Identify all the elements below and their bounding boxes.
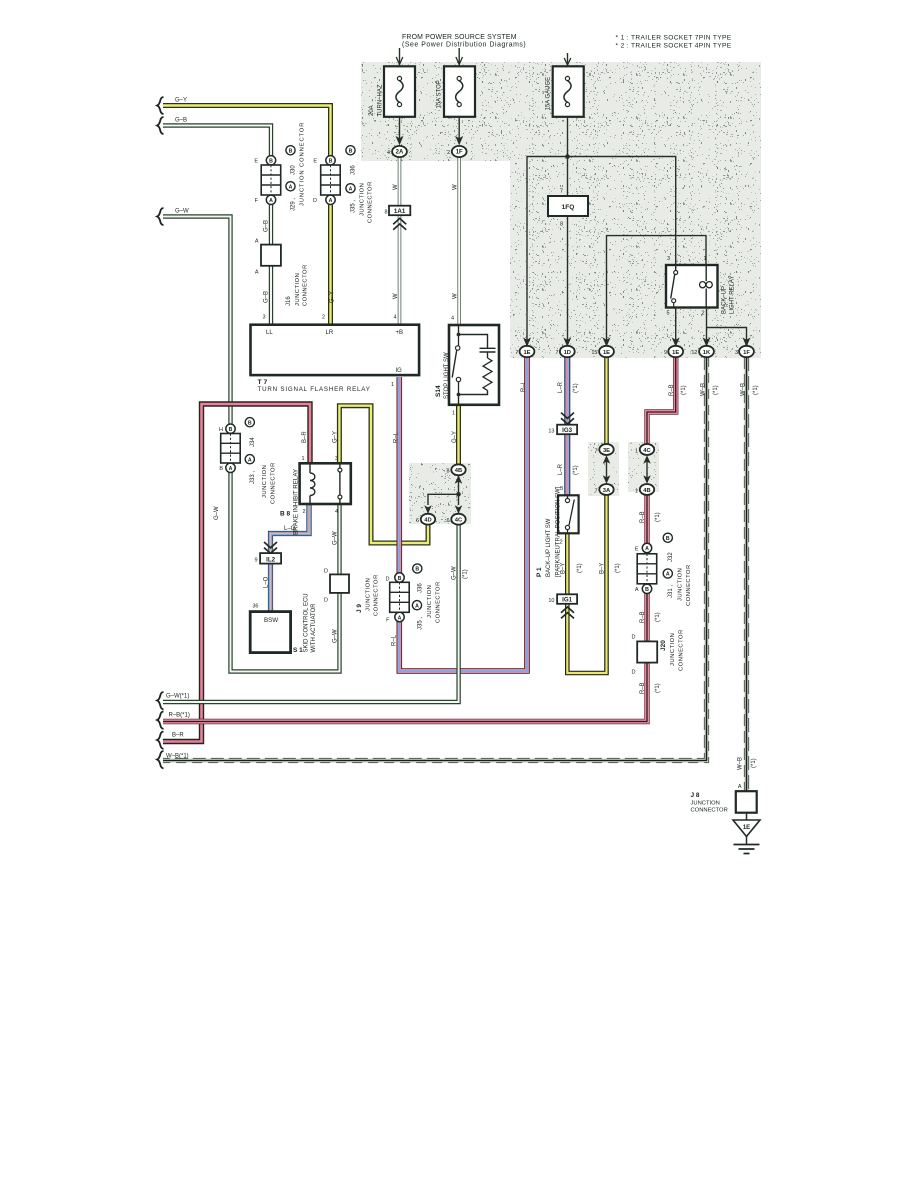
svg-text:T 7: T 7: [258, 379, 268, 386]
svg-text:A: A: [289, 184, 293, 190]
wire W-B(*1) from 1F down to J8: [744, 357, 748, 791]
svg-text:2: 2: [322, 315, 325, 321]
svg-text:G–Y: G–Y: [452, 431, 458, 443]
svg-text:A: A: [398, 616, 402, 622]
svg-text:(*1): (*1): [463, 569, 469, 579]
svg-text:D: D: [324, 569, 328, 575]
svg-text:A: A: [645, 546, 649, 552]
svg-text:R–L: R–L: [394, 431, 400, 443]
svg-text:* 1 : TRAILER SOCKET 7PIN TYPE: * 1 : TRAILER SOCKET 7PIN TYPE: [616, 35, 732, 42]
svg-text:J32: J32: [668, 552, 674, 562]
svg-text:E: E: [635, 547, 639, 553]
switch S14 stop light switch: [449, 325, 499, 405]
svg-text:SKID CONTROL ECU: SKID CONTROL ECU: [304, 593, 310, 652]
svg-text:B: B: [329, 158, 333, 164]
svg-text:A: A: [415, 603, 419, 609]
svg-text:IG: IG: [396, 368, 403, 374]
svg-text:A: A: [738, 784, 742, 790]
svg-text:13: 13: [548, 429, 554, 435]
wire G-W(*1) from 4C down to bottom row left edge: [163, 525, 459, 702]
svg-text:7: 7: [560, 189, 563, 195]
speckled background block top: [361, 62, 761, 358]
svg-text:1: 1: [635, 449, 638, 455]
svg-text:JUNCTION: JUNCTION: [670, 633, 676, 666]
svg-text:G–W: G–W: [175, 209, 189, 215]
svg-text:B: B: [269, 158, 273, 164]
svg-text:CONNECTOR: CONNECTOR: [686, 564, 692, 606]
svg-text:(*1): (*1): [655, 683, 661, 693]
wire B-Y from 3E up to 15(1E): [604, 357, 609, 444]
connector 15(1E): [599, 346, 614, 357]
junction connector J9 box: [330, 574, 349, 593]
svg-text:4B: 4B: [643, 488, 650, 494]
svg-text:4: 4: [393, 315, 396, 321]
svg-text:3: 3: [335, 456, 338, 462]
svg-text:LL: LL: [266, 330, 273, 336]
svg-text:J35 ,: J35 ,: [418, 617, 424, 630]
svg-text:1FQ: 1FQ: [562, 204, 575, 211]
svg-text:W–B: W–B: [701, 383, 707, 396]
svg-text:36: 36: [252, 604, 258, 610]
svg-text:W–B: W–B: [738, 757, 744, 770]
svg-text:B: B: [248, 420, 252, 426]
speckle patch around 3E 3A: [588, 442, 619, 496]
svg-text:G–W(*1): G–W(*1): [166, 694, 189, 700]
wire G-Y row top left: [163, 106, 331, 157]
ground triangle 1E: [733, 820, 760, 837]
fuse 15A GAUGE: [553, 66, 584, 117]
connector 7(1D): [560, 346, 575, 357]
wire junction to 4C: [458, 494, 460, 505]
wire W-B(*1) from 12(1K) down to bottom row left edge: [163, 357, 709, 763]
svg-text:B: B: [229, 427, 233, 433]
connector 7(1E): [520, 346, 535, 357]
connector box IG1 with chevrons: [557, 594, 577, 618]
svg-text:1: 1: [703, 256, 706, 262]
connector 4B right: [640, 484, 654, 495]
svg-text:A: A: [329, 198, 333, 204]
svg-text:7: 7: [555, 350, 558, 356]
connector 2A: [392, 136, 407, 157]
svg-text:W: W: [393, 184, 399, 190]
svg-text:BACK–UP LIGHT SW: BACK–UP LIGHT SW: [546, 518, 552, 577]
svg-text:R–B: R–B: [640, 511, 646, 523]
svg-text:15A GAUGE: 15A GAUGE: [546, 77, 552, 111]
wire double arrow between 4C and 4B right column: [646, 457, 648, 482]
svg-text:1E: 1E: [523, 350, 530, 356]
svg-text:J34: J34: [250, 437, 256, 447]
svg-text:A: A: [255, 239, 259, 245]
svg-text:B: B: [398, 576, 402, 582]
svg-text:A: A: [349, 186, 353, 192]
svg-text:1F: 1F: [743, 350, 750, 356]
svg-text:B: B: [219, 466, 223, 472]
arrow down into 4C: [455, 505, 463, 514]
svg-text:4B: 4B: [455, 468, 462, 474]
svg-text:7: 7: [594, 449, 597, 455]
svg-text:G–W: G–W: [214, 506, 220, 520]
svg-text:J33 ,: J33 ,: [250, 471, 256, 484]
svg-text:6: 6: [416, 518, 419, 524]
wire L-R from 1D down to P1 pin 3: [564, 357, 570, 495]
svg-text:S 1: S 1: [293, 647, 303, 654]
svg-text:W–B: W–B: [741, 383, 747, 396]
svg-text:(*1): (*1): [753, 385, 759, 395]
connector 3A: [599, 484, 613, 495]
brace B-R: [157, 732, 163, 750]
svg-text:JUNCTION: JUNCTION: [366, 578, 372, 611]
svg-text:B–Y: B–Y: [600, 563, 606, 574]
svg-text:1E: 1E: [743, 825, 750, 831]
fuse 20A TURN-HAZ: [384, 66, 415, 117]
svg-text:5: 5: [666, 311, 669, 317]
svg-text:G–B: G–B: [264, 220, 270, 232]
svg-text:1: 1: [301, 456, 304, 462]
svg-text:S14: S14: [435, 385, 442, 397]
svg-text:CONNECTOR: CONNECTOR: [691, 808, 728, 814]
junction connector J20 box: [637, 641, 657, 662]
svg-text:JUNCTION: JUNCTION: [262, 465, 268, 498]
connector row arrows: [523, 337, 751, 347]
svg-text:B: B: [645, 587, 649, 593]
svg-text:4: 4: [335, 509, 338, 515]
svg-text:A: A: [666, 572, 670, 578]
svg-text:CONNECTOR: CONNECTOR: [271, 462, 277, 504]
svg-text:15: 15: [591, 350, 597, 356]
connector 4B stop column: [451, 464, 465, 475]
svg-text:J20: J20: [660, 640, 667, 651]
svg-text:4C: 4C: [455, 518, 463, 524]
svg-text:1: 1: [391, 382, 394, 388]
svg-text:R–L: R–L: [392, 634, 398, 646]
junction connector J35/J36 grid top: [321, 156, 341, 205]
svg-text:(*1): (*1): [655, 512, 661, 522]
svg-text:W: W: [393, 293, 399, 299]
ECU S1 skid control ecu box: [250, 612, 290, 653]
connector box IL2 with chevrons: [260, 542, 281, 564]
svg-text:L–R: L–R: [558, 381, 564, 393]
relay T7 turn signal flasher relay box: [251, 325, 420, 375]
wire G-Y J35 column down to T7 pin 2: [328, 205, 333, 325]
svg-text:8: 8: [560, 222, 563, 228]
svg-text:1D: 1D: [564, 350, 571, 356]
svg-text:2: 2: [447, 150, 450, 156]
arrow down into 4D: [424, 505, 432, 514]
svg-text:JUNCTION: JUNCTION: [678, 568, 684, 601]
svg-text:1: 1: [452, 411, 455, 417]
svg-text:B: B: [666, 536, 670, 542]
brace G-B: [157, 117, 163, 134]
svg-text:4D: 4D: [424, 518, 431, 524]
junction connector J35/J36 grid lower: [390, 573, 410, 622]
svg-text:WITH ACTUATOR: WITH ACTUATOR: [311, 603, 317, 653]
svg-text:8: 8: [446, 469, 449, 475]
svg-text:JUNCTION: JUNCTION: [295, 273, 301, 306]
svg-text:BSW: BSW: [264, 617, 278, 624]
wire back-up relay pin 2 down to 12(1K) and 1F: [707, 308, 747, 346]
svg-text:7: 7: [515, 350, 518, 356]
connector 3(1F): [739, 346, 754, 357]
svg-text:STOP LIGHT SW: STOP LIGHT SW: [444, 352, 450, 399]
svg-text:20A: 20A: [369, 105, 375, 116]
svg-text:TURN SIGNAL FLASHER RELAY: TURN SIGNAL FLASHER RELAY: [258, 386, 371, 393]
speckle patch around 4C 4B right: [628, 442, 659, 492]
svg-text:A: A: [248, 457, 252, 463]
svg-text:(*1): (*1): [573, 465, 579, 475]
connector box 1FQ: [548, 196, 588, 216]
wire G-Y from S14 pin 1 down to 4B: [456, 405, 461, 465]
brace R-B(*1): [157, 712, 163, 730]
connector 12(1K): [699, 346, 714, 357]
wire L-O from B8 pin 2 to IL2 and S1: [271, 504, 310, 612]
svg-text:3: 3: [667, 256, 670, 262]
fuse 15A STOP: [444, 66, 475, 117]
svg-text:1F: 1F: [456, 150, 463, 156]
junction connector J29/J30 grid: [261, 156, 281, 205]
svg-text:CONNECTOR: CONNECTOR: [368, 181, 374, 223]
svg-text:2: 2: [302, 509, 305, 515]
svg-text:W: W: [453, 293, 459, 299]
svg-text:B–R: B–R: [302, 431, 308, 443]
svg-text:2: 2: [701, 311, 704, 317]
svg-text:15A STOP: 15A STOP: [437, 80, 443, 108]
wire R-L from T7 IG down around to 7(1E): [399, 357, 527, 671]
svg-text:P 1: P 1: [536, 567, 543, 577]
wire R-B from 9(1E) down to 4C: [647, 357, 676, 445]
svg-text:(*1): (*1): [573, 383, 579, 393]
svg-text:G–Y: G–Y: [333, 431, 339, 443]
svg-text:A: A: [635, 587, 639, 593]
svg-text:R–B: R–B: [640, 611, 646, 623]
svg-text:A: A: [255, 270, 259, 276]
svg-text:D: D: [632, 635, 636, 641]
svg-text:E: E: [254, 159, 258, 165]
svg-text:G–B: G–B: [264, 291, 270, 303]
connector box 1A1: [389, 206, 410, 230]
svg-text:L–O: L–O: [284, 526, 296, 532]
svg-text:D: D: [632, 670, 636, 676]
svg-text:J16: J16: [286, 296, 292, 306]
svg-text:(See Power Distribution Diagra: (See Power Distribution Diagrams): [402, 42, 526, 49]
svg-text:B: B: [349, 148, 353, 154]
node junction dot at gauge branch: [565, 154, 570, 159]
svg-text:D: D: [324, 598, 328, 604]
svg-text:CONNECTOR: CONNECTOR: [303, 264, 309, 306]
connector 9(1E): [668, 346, 683, 357]
svg-text:CONNECTOR: CONNECTOR: [679, 629, 685, 671]
wire gauge fuse feed down through 1FQ to 1D: [567, 117, 569, 346]
switch P1 back-up light switch: [558, 495, 579, 533]
wire G-W row from left edge down through J33 to J9 loop: [163, 217, 340, 672]
svg-text:W–B(*1): W–B(*1): [166, 754, 189, 760]
arrow up into 4B: [455, 475, 463, 484]
brace G-W: [157, 208, 163, 225]
svg-text:12: 12: [691, 350, 697, 356]
svg-text:(*1): (*1): [615, 563, 621, 573]
svg-text:1E: 1E: [603, 350, 610, 356]
wire R-B(*1) from 4B down through J31 J20 to bottom row left edge: [163, 495, 647, 722]
svg-text:3: 3: [735, 350, 738, 356]
svg-text:LIGHT RELAY: LIGHT RELAY: [730, 276, 736, 314]
svg-text:J30: J30: [291, 165, 297, 175]
svg-text:H: H: [219, 427, 223, 433]
svg-text:A: A: [269, 198, 273, 204]
wire 4B to junction dot: [458, 475, 460, 494]
wire fuse feeds with arrows from power source: [400, 48, 568, 66]
svg-text:J36: J36: [351, 165, 357, 175]
svg-text:4: 4: [387, 150, 390, 156]
svg-text:* 2 : TRAILER SOCKET 4PIN TYPE: * 2 : TRAILER SOCKET 4PIN TYPE: [616, 43, 732, 50]
svg-text:(*1): (*1): [681, 385, 687, 395]
svg-text:B–R: B–R: [172, 733, 184, 739]
wire fuse outputs to 2A and 1F: [400, 117, 460, 140]
svg-text:D: D: [313, 198, 317, 204]
junction connector J16 box: [261, 245, 281, 266]
svg-text:1E: 1E: [672, 350, 679, 356]
wire back-up relay pin 1 to 15(1E): [607, 236, 707, 346]
brace G-W(*1): [157, 692, 163, 710]
svg-text:D: D: [386, 577, 390, 583]
wire B-R loop from bottom row up over to B8 pin 1: [163, 404, 310, 742]
svg-text:G–W: G–W: [452, 566, 458, 580]
svg-text:G–Y: G–Y: [330, 291, 336, 303]
wire W from 2A to T7 pin 4: [398, 157, 402, 325]
svg-text:CONNECTOR: CONNECTOR: [374, 574, 380, 616]
svg-text:G–B: G–B: [175, 118, 187, 124]
svg-text:2A: 2A: [396, 150, 404, 156]
relay B8 brake inhibit relay: [300, 463, 351, 504]
junction connector J33/J34 grid: [221, 424, 241, 472]
svg-text:+B: +B: [396, 330, 404, 336]
svg-text:9: 9: [664, 350, 667, 356]
wire B-Y loop from P1 pin 2 down around up to 3A: [567, 495, 606, 673]
svg-text:6: 6: [446, 518, 449, 524]
svg-text:4: 4: [451, 316, 454, 322]
svg-text:1K: 1K: [703, 350, 711, 356]
svg-text:3: 3: [262, 315, 265, 321]
svg-text:J36: J36: [418, 583, 424, 593]
svg-text:R–B: R–B: [640, 682, 646, 694]
svg-text:LR: LR: [326, 330, 334, 336]
svg-text:IG3: IG3: [562, 427, 573, 434]
svg-text:(*1): (*1): [577, 563, 583, 573]
node junction dot under 4B: [456, 492, 461, 497]
wire J8 to ground: [746, 813, 748, 844]
connector 3E: [599, 444, 613, 455]
svg-text:B: B: [289, 148, 293, 154]
svg-text:JUNCTION CONNECTOR: JUNCTION CONNECTOR: [300, 122, 306, 206]
wire G-B J29 column down to T7 pin 3: [269, 205, 273, 325]
svg-text:G–W: G–W: [333, 531, 339, 545]
svg-text:R–L: R–L: [521, 380, 527, 392]
svg-text:(*1): (*1): [713, 385, 719, 395]
svg-text:1: 1: [635, 489, 638, 495]
svg-text:JUNCTION: JUNCTION: [691, 801, 720, 807]
svg-text:L–O: L–O: [264, 576, 270, 588]
svg-text:IG1: IG1: [562, 597, 573, 604]
svg-text:TURN–HAZ: TURN–HAZ: [378, 84, 384, 116]
svg-text:R–B(*1): R–B(*1): [169, 713, 190, 719]
ground symbol: [734, 845, 760, 854]
wire G-B row top left: [163, 126, 271, 157]
wire double arrow between 3E and 3A: [606, 457, 608, 482]
brace G-Y: [157, 97, 163, 114]
svg-text:(*1): (*1): [751, 758, 757, 768]
svg-text:BACK–UP: BACK–UP: [722, 286, 728, 314]
wire G-Y loop from B8 pin 3 over and down to 4D: [339, 406, 428, 543]
connector box IG3 with chevrons: [561, 413, 574, 424]
svg-text:J35 ,: J35 ,: [351, 200, 357, 213]
svg-text:7: 7: [594, 489, 597, 495]
wire back-up relay pin 5 down to 9(1E): [675, 308, 677, 346]
connector 4C: [451, 514, 465, 525]
connector 1F top: [452, 136, 467, 157]
svg-text:G–Y: G–Y: [175, 98, 187, 104]
svg-text:J29 ,: J29 ,: [291, 198, 297, 211]
svg-text:G–W: G–W: [333, 629, 339, 643]
svg-text:A: A: [229, 466, 233, 472]
svg-text:J 9: J 9: [356, 604, 363, 613]
svg-text:B–Y: B–Y: [561, 563, 567, 574]
junction connector J8 box: [736, 791, 757, 813]
svg-text:3E: 3E: [603, 448, 610, 454]
svg-text:8: 8: [384, 209, 387, 215]
svg-text:R–B: R–B: [669, 384, 675, 396]
svg-text:B 8: B 8: [280, 511, 291, 518]
svg-text:IL2: IL2: [266, 556, 275, 563]
speckle patch around 4B 4D 4C: [409, 463, 471, 524]
connector 4C right: [640, 444, 654, 455]
svg-text:10: 10: [548, 598, 554, 604]
relay back-up light relay: [666, 265, 718, 308]
svg-text:3A: 3A: [603, 488, 611, 494]
svg-text:B: B: [415, 567, 419, 573]
svg-text:L–R: L–R: [558, 463, 564, 475]
svg-text:9: 9: [254, 558, 257, 564]
svg-text:4C: 4C: [643, 448, 651, 454]
svg-text:JUNCTION: JUNCTION: [360, 183, 366, 216]
connector 4D: [421, 514, 435, 525]
wire junction to 4D: [428, 494, 459, 505]
wire horizontal branch to 1E and back-up relay pin 3: [527, 157, 676, 346]
svg-text:JUNCTION: JUNCTION: [427, 585, 433, 618]
svg-text:J 8: J 8: [691, 792, 700, 799]
junction connector J31/J32 grid: [637, 543, 657, 593]
brace W-B(*1): [157, 751, 163, 769]
svg-text:E: E: [313, 159, 317, 165]
svg-text:W: W: [453, 184, 459, 190]
svg-text:1A1: 1A1: [394, 208, 406, 215]
svg-text:(*1): (*1): [655, 612, 661, 622]
svg-text:FROM POWER SOURCE SYSTEM: FROM POWER SOURCE SYSTEM: [402, 34, 517, 41]
wire W from 1F to S14: [457, 157, 461, 325]
svg-text:CONNECTOR: CONNECTOR: [436, 581, 442, 623]
svg-text:J31 ,: J31 ,: [668, 585, 674, 598]
